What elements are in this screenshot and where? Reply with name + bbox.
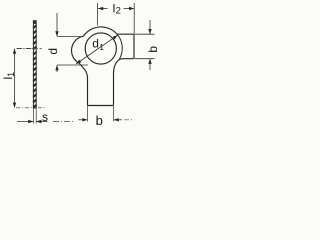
svg-text:b: b — [96, 113, 103, 128]
extension line l1 bottom — [16, 107, 46, 109]
hole circle — [85, 33, 116, 64]
dimension arrows d — [55, 13, 58, 72]
svg-text:d: d — [92, 36, 99, 50]
svg-text:l1: l1 — [1, 72, 16, 80]
extension line d top — [57, 36, 81, 38]
section hatching of strip — [33, 21, 36, 108]
extension line d bottom — [57, 64, 88, 66]
extension lines s below strip — [33, 109, 36, 124]
dimension line b (bottom) with arrows — [79, 118, 133, 121]
dimension arrows b (right) — [148, 20, 151, 70]
label s — [42, 110, 48, 124]
dimension line l2 — [98, 7, 134, 10]
label b (bottom) — [96, 113, 103, 128]
extension of tab bottom edge — [135, 58, 155, 60]
extension of tab top edge — [135, 33, 155, 35]
extension line right of l2 / tab end edge — [133, 3, 135, 34]
label d1 — [92, 36, 104, 52]
outer circle arc across right tab root — [117, 34, 122, 59]
label l2 — [113, 2, 121, 17]
label b (right, rotated) — [146, 46, 160, 53]
extension line left of l2 — [97, 3, 99, 26]
svg-text:b: b — [146, 46, 160, 53]
svg-text:d: d — [46, 48, 60, 55]
plan view outer contour (washer with two tabs) — [72, 27, 134, 106]
label l1 (rotated) — [1, 72, 16, 80]
dimension line d1 (outer diameter, diagonal) — [76, 35, 118, 64]
centre line through hole height (side view) — [17, 48, 43, 50]
svg-text:1: 1 — [99, 42, 104, 52]
svg-text:2: 2 — [116, 6, 121, 17]
dimension line l1 — [13, 49, 16, 108]
dimension line s with arrows — [17, 120, 75, 123]
side view washer strip outline — [33, 21, 36, 108]
extension line l1 top (hole centre) — [17, 48, 31, 50]
svg-text:s: s — [42, 110, 48, 124]
extension lines b bottom — [88, 106, 114, 122]
label d (rotated) — [46, 48, 60, 55]
